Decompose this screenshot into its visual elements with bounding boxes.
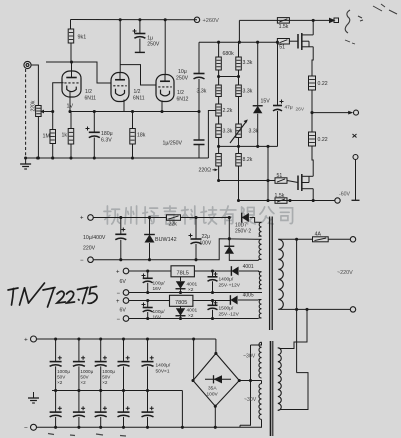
- wire -60V bottom rail: [239, 200, 335, 202]
- wire rail down to 22u: [195, 218, 197, 240]
- triode V2 1/2 6N11: [111, 73, 129, 102]
- label C5 line2: [156, 369, 170, 375]
- wire 1k to ground rail: [70, 144, 72, 158]
- svg-text:50V: 50V: [102, 375, 111, 380]
- wire V1 anode node stub left: [46, 61, 72, 63]
- capacitor 10u/400V mains: [115, 228, 126, 240]
- label 100u/16V (2): [153, 309, 166, 315]
- wire 0.22 to output node: [311, 90, 313, 113]
- terminal -60V: [335, 198, 340, 203]
- terminal mains neutral: [88, 257, 94, 263]
- capacitor 1u/250V: [194, 140, 205, 145]
- wire 180u to ground rail: [93, 138, 95, 159]
- junction 1M bottom on ground rail: [51, 156, 54, 159]
- label 1k: [62, 133, 68, 139]
- label 220k (rotated): [31, 100, 37, 111]
- arrowhead at speaker + terminal: [348, 111, 353, 115]
- svg-text:1.5k: 1.5k: [275, 193, 285, 199]
- wire input jack to volume pot top: [31, 65, 38, 106]
- MOSFET Q1 upper output: [298, 33, 313, 50]
- wire T2 S2 bottom to - rail: [261, 419, 263, 427]
- zener BUW142 surge: [144, 235, 155, 243]
- svg-text:4005: 4005: [243, 293, 254, 299]
- capacitor bank top C2a: [73, 356, 85, 367]
- junction -60V rail nodes: [288, 199, 314, 202]
- svg-text:25V·-12V: 25V·-12V: [219, 312, 240, 318]
- svg-text:7805: 7805: [175, 300, 187, 306]
- svg-text:10μ: 10μ: [178, 69, 187, 75]
- transformer T2 primary winding: [278, 348, 281, 411]
- wire + rail to C4a: [123, 339, 125, 362]
- resistor 3.3k left chain lower: [216, 124, 222, 138]
- resistor 1.5k upper gate stopper: [277, 18, 289, 24]
- wire 78L5 to diode: [180, 277, 182, 282]
- wire rail R3: [129, 300, 170, 302]
- winding S4 lead stubs: [259, 300, 262, 319]
- resistor 2.2k left chain: [216, 104, 222, 116]
- wire right chain link: [238, 70, 240, 85]
- label 18k: [137, 133, 146, 139]
- label 100V (22u): [200, 241, 212, 247]
- svg-text:1000μ: 1000μ: [57, 369, 70, 374]
- label 3.3k (left upper): [197, 89, 207, 95]
- svg-text:−: −: [24, 425, 28, 432]
- transformer T1 secondary winding: [278, 239, 283, 309]
- wire bridge left vertex link: [192, 380, 195, 382]
- wire V1 anode to V2 grid (direct coupling): [72, 62, 112, 83]
- wire bridge right vertex to winding tap: [239, 380, 261, 382]
- wire lower gate row: [219, 180, 275, 182]
- capacitor bank bottom C4b: [118, 406, 130, 417]
- label 2.2k: [223, 108, 233, 114]
- svg-text:1.5k: 1.5k: [279, 24, 289, 30]
- fuse 4A: [313, 237, 329, 242]
- handwritten scribble top-right corner: [345, 4, 397, 44]
- wire T2 tap to bridge line: [261, 381, 263, 384]
- wire 10u/400V to - rail: [120, 240, 122, 260]
- wire y146 bus: [219, 145, 278, 147]
- label 220R with arrow: [199, 168, 212, 174]
- wire cathode bus down to 18k: [132, 112, 134, 129]
- wire cathode bus: [70, 111, 199, 113]
- wire + rail to C1a: [55, 339, 57, 362]
- label 26V: [296, 107, 305, 113]
- junction mains rail nodes: [119, 216, 151, 219]
- wire rail R1 right of 78L5: [194, 270, 231, 272]
- junction 10D7 branch node: [228, 216, 231, 219]
- svg-text:1V: 1V: [67, 104, 74, 110]
- svg-text:16V: 16V: [153, 315, 162, 321]
- wire 8.2k to bottom rail: [238, 166, 240, 201]
- svg-text:+: +: [116, 299, 120, 305]
- junction pot bottom: [37, 156, 40, 159]
- svg-text:1400μ/: 1400μ/: [156, 363, 171, 369]
- junction rail nodes middle block: [146, 269, 214, 320]
- wire x250 to bottom: [240, 381, 251, 426]
- label 10u/400V: [83, 235, 106, 241]
- resistor 1M grid leak: [50, 130, 56, 144]
- wire top rail down to zener: [257, 42, 259, 105]
- wire x250 bottom to rail: [239, 425, 241, 427]
- label BUW142: [155, 237, 177, 243]
- label ~220V: [337, 270, 353, 276]
- svg-text:100μ/: 100μ/: [153, 281, 166, 287]
- label 6V (2): [120, 308, 127, 314]
- wire mid rail of capacitor bank: [52, 390, 182, 392]
- junction 220R bottom on gate row: [217, 179, 220, 182]
- label 1500u/: [219, 306, 234, 312]
- svg-text:250V: 250V: [176, 76, 189, 82]
- label 100V (bridge): [207, 392, 219, 398]
- chassis bar at speaker return: [352, 199, 360, 201]
- junction B+ rail at V3 anode: [164, 18, 167, 21]
- wire feedback tap to divider: [208, 111, 216, 159]
- wire 9k1 to V1 anode node: [70, 43, 72, 62]
- wire output node to speaker terminal: [312, 112, 350, 114]
- wire T2 S1 top lead: [251, 342, 262, 345]
- svg-text:×2: ×2: [80, 380, 86, 385]
- wire 680k to 3.3k (left chain): [218, 70, 220, 85]
- resistor 18k cathode bus: [130, 129, 136, 145]
- junction x268 crossings: [266, 179, 269, 202]
- junction right vertex line at x250: [249, 379, 252, 382]
- svg-text:35A: 35A: [208, 386, 217, 392]
- resistor 3.3k left chain upper: [216, 85, 222, 97]
- wire - rail jog up: [213, 239, 259, 260]
- wire mains + rail: [93, 217, 166, 219]
- label - terminal 2: [117, 317, 121, 323]
- winding S3 lead stubs: [259, 271, 262, 289]
- svg-text:×2: ×2: [57, 380, 63, 385]
- label bank C1 line2: [57, 375, 66, 380]
- junction B+ rail at V2 anode: [119, 18, 122, 21]
- wire V1 anode to tube top: [71, 62, 73, 71]
- junction +60V line at drain: [312, 19, 315, 22]
- capacitor 100u/16V input 2: [142, 303, 153, 312]
- label 1/2 (V3): [177, 90, 184, 96]
- svg-text:×2: ×2: [102, 380, 108, 385]
- resistor 51 upper gate: [277, 39, 289, 45]
- junction at 22u cap top: [194, 216, 197, 219]
- rectifier 10D7 x2: [242, 213, 249, 223]
- svg-text:220Ω: 220Ω: [199, 168, 212, 174]
- svg-text:0.22: 0.22: [318, 137, 328, 143]
- wire top rail to 680k: [218, 42, 220, 57]
- wire lower 0.22 to Q2 drain: [312, 146, 313, 176]
- label + terminal 2: [116, 299, 120, 305]
- wire 10D7 to winding S1 top: [250, 218, 259, 223]
- svg-text:47μ: 47μ: [285, 105, 293, 111]
- label 0.22 (lower): [318, 137, 328, 143]
- wire top rail corner down-left: [198, 41, 200, 43]
- label 10u: [178, 69, 187, 75]
- wire zener to y146 bus: [257, 114, 259, 147]
- transformer T1 primary winding S4: [259, 300, 261, 319]
- wire cap 100u-1 to R2: [147, 283, 149, 293]
- regulator 78L5 box: [171, 266, 194, 277]
- wire mains - rail: [93, 259, 212, 261]
- speaker terminal +: [354, 110, 359, 115]
- label bank C3 line1: [102, 369, 115, 374]
- wire mains rail to BUW142: [149, 218, 151, 235]
- wire grid node up to V1 grid: [53, 83, 64, 112]
- svg-text:78L5: 78L5: [176, 270, 188, 276]
- terminal bottom supply +: [31, 336, 37, 342]
- label 6V (1): [120, 279, 127, 285]
- svg-text:×2: ×2: [188, 313, 194, 319]
- label bank C1 line3: [57, 380, 63, 385]
- terminal AC out bottom: [350, 307, 355, 312]
- label 6N11 (V2): [133, 96, 145, 102]
- svg-text:100μ/: 100μ/: [153, 309, 166, 315]
- wire R3 to cap 100u-2: [147, 301, 149, 308]
- label x2 (2): [188, 313, 194, 319]
- wire B+ rail down to 1u cap: [139, 20, 141, 34]
- wire C3a to mid rail: [100, 366, 102, 390]
- ground symbol: [20, 158, 31, 169]
- wire 1u cap to chassis stub: [139, 39, 141, 53]
- capacitor bank bottom C5b: [142, 406, 154, 417]
- junction x229 on jog: [228, 237, 231, 240]
- svg-text:+: +: [24, 337, 28, 344]
- svg-text:18k: 18k: [137, 133, 146, 139]
- label 4001 (rect): [243, 264, 254, 270]
- svg-text:50V: 50V: [80, 375, 89, 380]
- watermark text (Hangzhou Jiangrui Technology Co. Ltd., simulated hanzi strokes): [104, 206, 293, 224]
- wire branch down x229: [228, 218, 230, 239]
- wire mid rail to C5b: [147, 391, 149, 413]
- stray scan marks bottom edge: [48, 434, 126, 437]
- transformer T2 core: [271, 341, 273, 436]
- resistor 220R left chain bottom: [216, 154, 222, 167]
- resistor 680k: [216, 57, 222, 70]
- transformer T2 secondary winding S1: [259, 342, 262, 378]
- svg-text:+: +: [80, 216, 84, 222]
- junction ground rail nodes: [24, 156, 134, 159]
- junction right chain node A: [237, 75, 240, 78]
- handwritten x mark: [353, 134, 357, 138]
- junction left chain at y146: [217, 145, 220, 148]
- label 1.5k (upper): [279, 24, 289, 30]
- transformer T1 core: [270, 217, 273, 331]
- svg-text:220V: 220V: [83, 246, 96, 252]
- wire T2 primary bottom lead: [278, 409, 281, 412]
- svg-text:100V: 100V: [207, 392, 219, 398]
- label 1/2 (V1): [85, 89, 92, 95]
- svg-text:~30V: ~30V: [243, 354, 256, 360]
- arrow for 220R label: [213, 168, 218, 171]
- junction 8.2k bottom: [237, 199, 240, 202]
- terminal bottom supply -: [31, 424, 37, 430]
- capacitor 22u 100V: [189, 234, 202, 244]
- wire ground rail of tube stage: [26, 157, 209, 159]
- resistor 8.2k right chain bottom: [236, 154, 242, 167]
- svg-text:1k: 1k: [62, 133, 68, 139]
- terminal 6V supply 2 -: [123, 316, 129, 322]
- label 250V x2: [235, 229, 251, 235]
- input terminal J1 (inner ring): [26, 64, 29, 67]
- svg-text:6N11: 6N11: [85, 96, 97, 102]
- terminal 6V supply 1 -: [123, 290, 129, 296]
- svg-text:−: −: [117, 317, 121, 323]
- zener 15V: [253, 99, 271, 114]
- wire V3 cathode down to bus: [161, 101, 163, 112]
- rectifier 4005 to winding: [230, 295, 237, 305]
- svg-text:51: 51: [279, 45, 285, 51]
- wire bottom - rail: [37, 426, 263, 428]
- wire left input vertical from input jack to ground rail: [25, 69, 27, 158]
- wire C3b to - rail: [100, 417, 102, 427]
- svg-text:8.2k: 8.2k: [243, 157, 253, 163]
- svg-text:4A: 4A: [315, 231, 322, 237]
- label 51 (upper): [279, 45, 285, 51]
- terminal 6V supply 2 +: [123, 298, 129, 304]
- capacitor 1u 250V B+ decoupling: [133, 29, 146, 38]
- label C5 line1: [156, 363, 171, 369]
- svg-text:BUW142: BUW142: [155, 237, 177, 243]
- wire C5a to mid rail: [147, 366, 149, 390]
- junction V1 anode node: [70, 60, 73, 63]
- label 25V +12V: [219, 283, 241, 289]
- label 220V: [83, 246, 96, 252]
- capacitor 10u 250V: [194, 74, 205, 79]
- label +260V: [203, 18, 220, 24]
- wire fuse to AC terminal top: [328, 238, 350, 240]
- wire 1400u to R2: [212, 281, 214, 292]
- wire C4b to - rail: [123, 417, 125, 427]
- wire + rail to bridge top vertex: [215, 339, 217, 353]
- svg-text:1M: 1M: [43, 134, 51, 140]
- capacitor 1400u/25V output 1: [208, 272, 218, 281]
- terminal +260V supply: [194, 17, 199, 22]
- svg-text:6V: 6V: [120, 308, 127, 314]
- svg-text:680k: 680k: [223, 51, 235, 57]
- wire cathode bus node down to 1u/250V cap: [198, 112, 200, 141]
- label 4001 (2): [187, 308, 198, 314]
- wire pot wiper arm: [41, 111, 53, 113]
- svg-text:−: −: [80, 258, 84, 264]
- wire y146 to 8.2k: [238, 146, 240, 153]
- svg-text:4001: 4001: [243, 264, 254, 270]
- wire 4001 to winding tap S3 top: [239, 270, 259, 273]
- label 1V cathode voltage: [67, 104, 74, 110]
- junction secondary bottom nodes: [295, 308, 309, 311]
- wire C5b to - rail: [147, 417, 149, 427]
- wire mains rail down to 10u/400V: [120, 218, 122, 235]
- junction y146 bus nodes: [256, 145, 269, 148]
- resistor 22k on mains rail: [167, 215, 181, 221]
- label 0.22 (upper): [318, 81, 328, 87]
- wire mid rail to C2b: [78, 391, 80, 413]
- pot wiper arrowhead: [40, 110, 44, 114]
- wire driver block top rail: [199, 41, 277, 43]
- wire V2 cathode down to bus: [123, 100, 125, 112]
- capacitor bank bottom C2b: [73, 406, 85, 417]
- svg-text:50V×1: 50V×1: [156, 369, 170, 375]
- label 180u: [101, 131, 113, 137]
- svg-text:4001: 4001: [187, 282, 198, 288]
- label 3.3k (trimmer): [249, 129, 259, 135]
- wire 22u to - rail: [195, 244, 197, 260]
- capacitor 180u 6.3V cathode bypass: [86, 127, 100, 138]
- svg-text:+260V: +260V: [203, 18, 220, 24]
- bridge internal diode 35A 100V: [205, 375, 231, 383]
- terminal AC out top: [350, 237, 355, 242]
- wire 47u bottom to y146 bus: [277, 111, 279, 146]
- diode 1N4001 x2 under 78L5: [176, 281, 186, 289]
- label - of mains terminal: [80, 258, 84, 264]
- wire 47u top to rail: [277, 42, 279, 105]
- label 3.3k (right mid): [243, 89, 253, 95]
- label 6N12 (V3): [177, 97, 189, 103]
- svg-text:1μ/250V: 1μ/250V: [163, 141, 183, 147]
- label 4005 (rect): [243, 293, 254, 299]
- svg-text:3.3k: 3.3k: [197, 89, 207, 95]
- terminal 6V supply 1 +: [123, 268, 129, 274]
- wire V1 cathode down: [69, 92, 71, 112]
- wire + rail corner down to bridge left vertex: [193, 339, 195, 381]
- label 3.3k (left lower): [223, 129, 233, 135]
- input terminal J1 (outer ring): [24, 61, 31, 68]
- label ~30V upper: [243, 354, 256, 360]
- svg-text:25V·+12V: 25V·+12V: [219, 283, 241, 289]
- svg-text:180μ: 180μ: [101, 131, 113, 137]
- triode V3 1/2 6N12: [156, 75, 174, 102]
- junction B+ rail at 1u cap: [138, 18, 141, 21]
- wire left chain 3.3k to 2.2k: [218, 97, 220, 105]
- junction output node: [310, 111, 313, 114]
- resistor 3.3k right chain upper: [236, 57, 242, 70]
- svg-text:1500μ/: 1500μ/: [219, 306, 234, 312]
- label 16V (1): [153, 286, 162, 292]
- wire R3 to 1500u: [212, 301, 214, 306]
- wire bottom + rail: [37, 338, 216, 340]
- label bank C3 line3: [102, 380, 108, 385]
- label 10D7: [235, 223, 247, 229]
- svg-text:250V: 250V: [147, 42, 160, 48]
- svg-text:4001: 4001: [187, 308, 198, 314]
- wire 2.2k to 3.3k lower: [218, 116, 220, 124]
- diode on x229 branch: [224, 246, 234, 254]
- wire T2 primary top jog up: [281, 309, 308, 348]
- wire chain cross link y76: [219, 76, 239, 78]
- label -60V: [339, 192, 350, 198]
- wire + rail to C3a: [100, 339, 102, 362]
- wire x296 drop to lower transformer: [296, 239, 298, 372]
- wire + rail to C2a: [78, 339, 80, 362]
- wire top rail to right chain: [238, 42, 240, 57]
- svg-text:0.22: 0.22: [318, 81, 328, 87]
- wire V2 anode from B+ rail: [119, 20, 121, 72]
- svg-text:250V·2: 250V·2: [235, 229, 251, 235]
- svg-text:3.3k: 3.3k: [249, 129, 259, 135]
- junction + rail nodes: [54, 337, 195, 340]
- label 1400u/: [219, 277, 234, 283]
- label + of mains terminal: [80, 216, 84, 222]
- label 100u/16V (1): [153, 281, 166, 287]
- label 1u/250V: [163, 141, 183, 147]
- capacitor bank top C3a: [95, 356, 107, 367]
- svg-text:1/2: 1/2: [134, 89, 141, 95]
- wire V3 anode from B+ rail: [164, 20, 166, 75]
- wire output node down to lower 0.22: [311, 113, 313, 132]
- wire R1 to cap 100u-1: [147, 271, 149, 278]
- wire mid rail to C4b: [123, 391, 125, 413]
- triode V1 1/2 6N11: [62, 71, 81, 97]
- wire trimmer to y146 bus: [238, 138, 240, 147]
- wire 1u/250V cap to ground rail: [198, 145, 200, 159]
- wire T2 primary top lead: [278, 347, 281, 350]
